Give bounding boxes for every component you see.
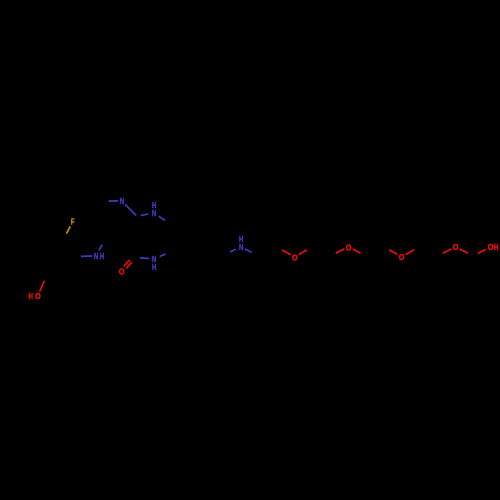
wire: C8a - NH(top) bond bbox=[141, 214, 149, 216]
wire: O2 - CH2 bond bbox=[353, 249, 361, 253]
svg-text:H: H bbox=[28, 292, 32, 301]
svg-text:O: O bbox=[35, 292, 41, 301]
svg-text:O: O bbox=[488, 243, 494, 252]
wire: phenol C-OH bond bbox=[40, 281, 45, 292]
svg-text:N: N bbox=[239, 243, 243, 252]
svg-text:O: O bbox=[346, 243, 352, 252]
wire: CH2 - NH(amine) bond bbox=[230, 249, 236, 252]
wire: O1 - CH2 bond bbox=[299, 250, 307, 255]
svg-text:H: H bbox=[152, 263, 156, 272]
svg-text:H: H bbox=[494, 243, 498, 252]
carbonyl C=O double bond bbox=[126, 262, 132, 269]
wire: CH2 - O3 bond bbox=[389, 250, 397, 255]
wire: NH(amine) - CH2 bond bbox=[245, 249, 252, 253]
wire: O4 - CH2 bond bbox=[460, 249, 468, 253]
svg-text:N: N bbox=[120, 197, 124, 206]
benzylic linker chain bbox=[195, 247, 205, 265]
wire: NH(amide) - carbonyl C bond bbox=[140, 257, 149, 260]
wire: CH2 - O4 bond bbox=[443, 249, 452, 253]
fused benzo ring bbox=[172, 212, 195, 225]
svg-text:N: N bbox=[152, 209, 156, 218]
wire: pyridine N - C2 bond bbox=[109, 200, 119, 202]
svg-text:H: H bbox=[100, 252, 104, 261]
svg-text:O: O bbox=[119, 267, 125, 276]
svg-text:O: O bbox=[399, 253, 405, 262]
seven-membered diazepinone ring bbox=[133, 239, 134, 258]
wire: O3 - CH2 bond bbox=[406, 250, 415, 255]
wire: NH(top) - benzo bond bbox=[159, 216, 165, 220]
wire: N(aniline) - core C bond bbox=[99, 245, 102, 251]
wire: pyridine N - C8a bond bbox=[125, 204, 136, 215]
wire: CH2 - OH(end) bond bbox=[478, 249, 486, 253]
svg-text:O: O bbox=[453, 243, 459, 252]
svg-text:F: F bbox=[71, 219, 75, 227]
pyridine ring of tricyclic core bbox=[92, 201, 97, 225]
wire: phenyl C1 - N(aniline) bond bbox=[81, 255, 93, 257]
aniline benzene ring (2-fluoro-5-hydroxyphenyl) bbox=[65, 237, 79, 257]
svg-text:O: O bbox=[292, 253, 298, 262]
svg-text:N: N bbox=[94, 252, 98, 261]
wire: phenyl C-F bond bbox=[66, 226, 70, 233]
wire: NH(amide) - benzo bond bbox=[160, 254, 166, 256]
wire: CH2 - O2 bond bbox=[336, 249, 345, 253]
wire: CH2 - O1 bond bbox=[282, 250, 291, 255]
